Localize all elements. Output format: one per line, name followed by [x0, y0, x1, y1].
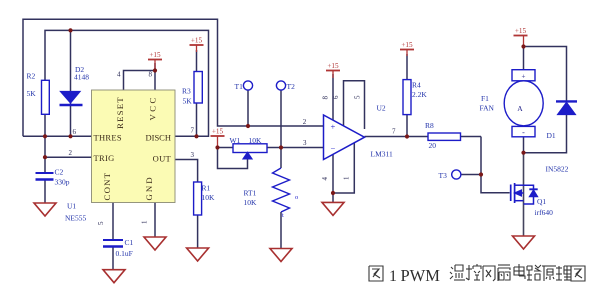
ground (R1) — [187, 248, 209, 261]
svg-text:5: 5 — [354, 95, 362, 99]
power +15 (U1 VCC) — [148, 51, 162, 71]
ground (U2) — [322, 202, 344, 215]
svg-text:T2: T2 — [287, 82, 296, 91]
svg-text:1: 1 — [141, 220, 149, 224]
test point T2 — [276, 81, 295, 91]
wire D2 branch — [70, 30, 72, 136]
svg-text:+: + — [522, 73, 526, 81]
svg-text:1: 1 — [343, 176, 351, 180]
svg-text:4148: 4148 — [74, 73, 89, 82]
resistor R3 — [182, 72, 202, 106]
wire R3 branch — [196, 50, 198, 136]
svg-text:Q1: Q1 — [537, 197, 546, 206]
thermistor RT1 — [244, 168, 299, 219]
svg-text:+15: +15 — [212, 128, 224, 136]
ground (RT1) — [270, 249, 292, 262]
wire inner loop / DISCH net — [45, 30, 209, 136]
motor F1 FAN — [480, 70, 544, 138]
wire outer loop / net to U2 pin 2 — [23, 19, 324, 136]
svg-text:+15: +15 — [515, 27, 527, 35]
svg-text:2.2K: 2.2K — [412, 90, 427, 99]
wire W1 wiper return — [218, 148, 248, 169]
ground (C2) — [34, 203, 56, 216]
svg-text:VCC: VCC — [148, 95, 158, 120]
svg-text:T1: T1 — [235, 82, 244, 91]
svg-text:1: 1 — [389, 268, 397, 285]
junction (T1/net2) — [246, 124, 250, 128]
wire U2 pins 4 and 1 — [333, 143, 354, 203]
junction (R3/DISCH) — [194, 134, 198, 138]
resistor R8 — [425, 121, 461, 150]
ground (Q1) — [513, 236, 535, 249]
diode D2 — [60, 65, 90, 105]
potentiometer W1 — [230, 136, 268, 159]
junction (TRIG/C2) — [43, 155, 47, 159]
junction (W1/RT1/net3) — [279, 145, 283, 149]
svg-text:U1: U1 — [67, 202, 76, 211]
svg-text:7: 7 — [392, 128, 396, 136]
transistor Q1 irf640 — [511, 183, 553, 217]
ground (U1 GND) — [144, 237, 166, 250]
svg-text:F1: F1 — [481, 94, 489, 103]
junction (VCC/RESET) — [153, 68, 157, 72]
svg-text:2: 2 — [303, 118, 307, 126]
svg-text:GND: GND — [144, 175, 154, 200]
svg-text:7: 7 — [191, 127, 195, 135]
svg-text:C2: C2 — [55, 168, 64, 177]
svg-text:8: 8 — [322, 96, 330, 100]
wire TRIG net — [45, 136, 92, 203]
svg-text:R1: R1 — [202, 184, 211, 193]
svg-text:4: 4 — [321, 177, 329, 181]
wire R4 branch — [406, 54, 408, 137]
svg-text:+: + — [331, 122, 336, 132]
svg-text:t: t — [282, 212, 284, 219]
svg-text:10K: 10K — [244, 198, 258, 207]
wire Q1 drain-source — [523, 153, 525, 236]
svg-text:R8: R8 — [425, 121, 434, 130]
junction (T3) — [479, 172, 483, 176]
wire W1 net / U2 pin 3 net — [218, 147, 324, 149]
svg-text:5K: 5K — [27, 89, 37, 98]
svg-text:R4: R4 — [412, 81, 421, 90]
svg-text:10K: 10K — [249, 136, 263, 145]
wire fan supply — [523, 47, 525, 153]
svg-text:R3: R3 — [182, 87, 191, 96]
wire VCC / RESET net — [124, 63, 156, 90]
caption 图1 PWM 温控风扇电路原理图 — [369, 264, 585, 285]
svg-text:10K: 10K — [202, 193, 216, 202]
wire THRES net — [23, 135, 92, 137]
power +15 (R3) — [190, 37, 204, 53]
svg-text:+15: +15 — [191, 37, 203, 45]
power +15 (W1) — [211, 128, 225, 148]
junction (fan top) — [521, 44, 525, 48]
test point T1 — [235, 81, 253, 91]
svg-text:4: 4 — [117, 71, 121, 79]
svg-text:5K: 5K — [183, 96, 193, 105]
wire GND branch — [154, 203, 156, 238]
wire OUT net — [175, 160, 198, 249]
resistor R2 — [27, 72, 50, 115]
svg-text:OUT: OUT — [153, 154, 172, 164]
svg-text:0.1uF: 0.1uF — [116, 249, 133, 258]
power +15 (fan) — [514, 27, 528, 47]
svg-text:3: 3 — [191, 151, 195, 159]
wire U2 pins 6-5 bridge — [344, 81, 365, 129]
svg-text:THRES: THRES — [94, 132, 122, 142]
resistor R4 — [403, 80, 427, 115]
svg-text:R2: R2 — [27, 72, 36, 81]
svg-text:RT1: RT1 — [244, 189, 257, 198]
diode D1 — [546, 101, 578, 173]
junction (pin7/R4) — [405, 134, 409, 138]
test point T3 — [439, 170, 461, 180]
wire U2 pin 8 — [332, 74, 334, 121]
svg-text:LM311: LM311 — [371, 150, 393, 159]
wire U2 output pin 7 net — [365, 137, 510, 193]
op-amp U2 LM311 — [303, 95, 396, 181]
capacitor C2 — [36, 168, 70, 187]
svg-text:8: 8 — [149, 71, 153, 79]
power +15 (R4) — [400, 41, 414, 56]
svg-text:3: 3 — [303, 139, 307, 147]
svg-text:+15: +15 — [327, 62, 339, 70]
svg-text:FAN: FAN — [480, 104, 495, 113]
svg-text:TRIG: TRIG — [94, 153, 115, 163]
svg-text:PWM: PWM — [401, 266, 441, 285]
wire T1 stem — [247, 90, 249, 126]
junction (U2 pins 4-1) — [331, 191, 335, 195]
svg-text:6: 6 — [332, 95, 340, 99]
svg-text:irf640: irf640 — [535, 208, 554, 217]
svg-text:330p: 330p — [55, 178, 70, 187]
wire CONT branch — [112, 203, 114, 270]
svg-text:−: − — [331, 143, 336, 153]
svg-text:NE555: NE555 — [65, 214, 86, 223]
svg-text:2: 2 — [69, 149, 73, 157]
power +15 (U2 pin 8) — [326, 62, 340, 78]
svg-text:+15: +15 — [401, 41, 413, 49]
wire D1 branch — [524, 47, 567, 153]
junction (D2 top) — [68, 28, 72, 32]
wire T3 link — [461, 174, 481, 176]
capacitor C1 — [103, 238, 134, 258]
svg-text:U2: U2 — [377, 104, 386, 113]
svg-text:5: 5 — [97, 221, 105, 225]
junction (THRES/R2) — [43, 134, 47, 138]
svg-text:20: 20 — [429, 141, 437, 150]
junction (fan bottom) — [521, 151, 525, 155]
svg-text:A: A — [517, 104, 523, 113]
ground (C1) — [103, 270, 125, 283]
wire RT1 branch — [280, 148, 282, 249]
svg-text:-: - — [522, 128, 525, 137]
svg-text:T3: T3 — [439, 171, 448, 180]
svg-text:C1: C1 — [125, 238, 134, 247]
junction (+15/W1) — [215, 145, 219, 149]
svg-text:D1: D1 — [547, 131, 556, 140]
resistor R1 — [194, 182, 215, 215]
svg-text:RESET: RESET — [115, 96, 125, 129]
svg-text:o: o — [295, 194, 298, 201]
svg-text:IN5822: IN5822 — [546, 165, 569, 174]
svg-text:6: 6 — [73, 128, 77, 136]
junction (THRES/D2) — [68, 134, 72, 138]
svg-text:DISCH: DISCH — [145, 132, 171, 142]
wire T2 stem — [280, 90, 282, 148]
svg-text:+15: +15 — [149, 51, 161, 59]
svg-text:W1: W1 — [230, 136, 241, 145]
svg-text:CONT: CONT — [102, 172, 112, 201]
IC U1 NE555 — [65, 71, 195, 226]
